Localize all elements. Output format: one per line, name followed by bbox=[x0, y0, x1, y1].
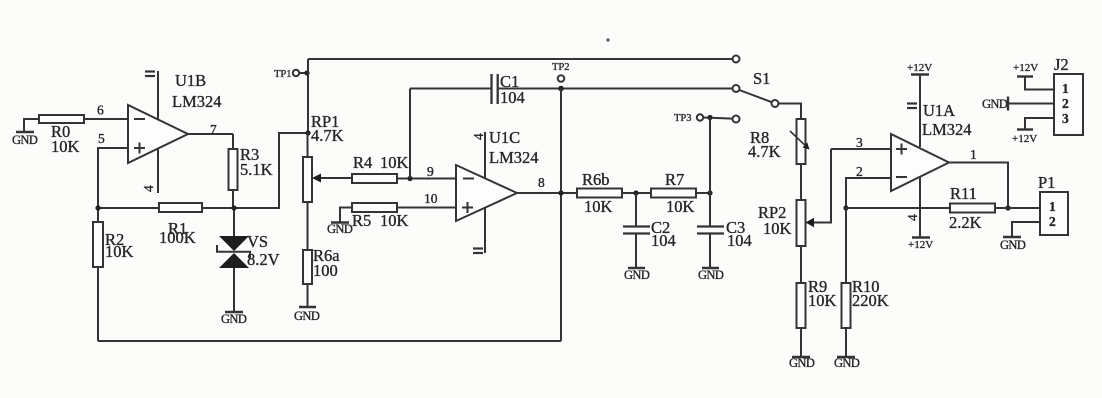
svg-text:LM324: LM324 bbox=[922, 120, 972, 139]
svg-text:10K: 10K bbox=[666, 197, 695, 216]
capacitor C3 104 bbox=[697, 193, 724, 267]
svg-text:104: 104 bbox=[727, 231, 752, 250]
ground GND below R9 bbox=[792, 356, 810, 359]
svg-text:2.2K: 2.2K bbox=[949, 213, 982, 232]
svg-text:3: 3 bbox=[856, 135, 863, 150]
ground GND below R6a bbox=[299, 306, 316, 309]
rheostat R8 4.7K bbox=[779, 104, 810, 201]
svg-text:+12V: +12V bbox=[1012, 133, 1037, 145]
svg-text:GND: GND bbox=[789, 356, 815, 370]
svg-text:104: 104 bbox=[651, 231, 676, 250]
svg-text:10K: 10K bbox=[51, 137, 80, 156]
svg-text:+12V: +12V bbox=[907, 62, 932, 74]
svg-text:GND: GND bbox=[12, 133, 38, 147]
svg-text:8: 8 bbox=[538, 175, 545, 190]
wire P1 pin2 to ground bbox=[1012, 222, 1040, 236]
resistor R4 10K bbox=[352, 89, 456, 184]
svg-text:4.7K: 4.7K bbox=[748, 142, 781, 161]
connector P1 bbox=[1040, 192, 1068, 235]
svg-text:J2: J2 bbox=[1054, 55, 1069, 74]
resistor R1 100K bbox=[159, 203, 202, 212]
svg-text:100K: 100K bbox=[159, 228, 196, 247]
svg-text:U1A: U1A bbox=[923, 101, 955, 120]
svg-text:GND: GND bbox=[624, 268, 650, 282]
svg-text:10K: 10K bbox=[105, 242, 134, 261]
svg-text:GND: GND bbox=[698, 268, 724, 282]
resistor R10 220K bbox=[842, 208, 851, 356]
ground GND at R5 bbox=[331, 208, 352, 223]
potentiometer RP2 10K bbox=[797, 149, 832, 283]
resistor R6b 10K bbox=[577, 189, 651, 198]
svg-text:2: 2 bbox=[1062, 96, 1069, 111]
svg-text:8.2V: 8.2V bbox=[247, 250, 280, 269]
svg-text:10K: 10K bbox=[380, 211, 409, 230]
capacitor C1 104 bbox=[410, 74, 733, 104]
ground GND below C2 bbox=[628, 267, 645, 270]
wire pin 3 bbox=[831, 148, 891, 150]
wire J2 pin1 +12V bbox=[1017, 77, 1054, 90]
ground GND at R0 input bbox=[16, 119, 38, 132]
svg-text:TP2: TP2 bbox=[552, 62, 570, 73]
wire pin 8 output bbox=[517, 192, 577, 194]
test point TP2 bbox=[558, 75, 565, 91]
wire feedback vertical and bottom rail bbox=[98, 89, 564, 342]
resistor R3 5.1K bbox=[229, 134, 238, 208]
svg-text:U1B: U1B bbox=[175, 71, 206, 90]
svg-text:GND: GND bbox=[982, 97, 1008, 111]
svg-text:TP3: TP3 bbox=[674, 113, 692, 124]
test point TP3 bbox=[697, 114, 733, 193]
wire J2 pin3 +12V bbox=[1017, 118, 1054, 130]
wire TP1 vertical and top wire to S1 bbox=[308, 59, 733, 133]
svg-text:104: 104 bbox=[500, 88, 525, 107]
svg-text:R7: R7 bbox=[665, 170, 684, 189]
resistor R7 10K bbox=[651, 189, 713, 198]
resistor R0 10K bbox=[39, 115, 128, 123]
svg-text:1: 1 bbox=[1062, 81, 1069, 96]
resistor R2 10K bbox=[93, 208, 103, 341]
svg-text:GND: GND bbox=[294, 309, 320, 323]
op-amp U1B bbox=[128, 71, 188, 193]
power +12V above U1A bbox=[911, 73, 929, 75]
zener diode VS 8.2V bbox=[217, 208, 250, 311]
ground GND at P1 bbox=[1003, 236, 1021, 239]
svg-text:7: 7 bbox=[210, 122, 217, 137]
potentiometer RP1 4.7K bbox=[303, 130, 352, 250]
svg-text:S1: S1 bbox=[753, 69, 770, 88]
ground GND below VS bbox=[225, 311, 243, 314]
wire pin 5 to node bbox=[98, 148, 128, 208]
svg-text:10K: 10K bbox=[380, 153, 409, 172]
svg-text:4: 4 bbox=[471, 133, 486, 140]
svg-text:1: 1 bbox=[970, 147, 977, 162]
wire main node rail y208 bbox=[98, 133, 308, 208]
svg-text:+12V: +12V bbox=[1013, 62, 1038, 74]
svg-text:P1: P1 bbox=[1038, 173, 1055, 192]
wire pin 1 output bbox=[949, 163, 1011, 211]
resistor R6a 100 bbox=[303, 250, 312, 306]
svg-text:GND: GND bbox=[327, 222, 353, 236]
svg-text:GND: GND bbox=[221, 312, 247, 326]
svg-text:6: 6 bbox=[97, 103, 104, 118]
resistor R11 2.2K bbox=[950, 204, 1040, 213]
svg-text:U1C: U1C bbox=[489, 128, 520, 147]
svg-text:LM324: LM324 bbox=[489, 148, 539, 167]
resistor R9 10K bbox=[797, 283, 806, 356]
junction dots left section bbox=[95, 205, 236, 210]
power +12V below U1A bbox=[912, 236, 930, 238]
svg-text:10K: 10K bbox=[763, 219, 792, 238]
svg-text:9: 9 bbox=[427, 164, 434, 179]
test point TP1 bbox=[293, 70, 310, 76]
svg-text:VS: VS bbox=[247, 232, 268, 251]
svg-text:10: 10 bbox=[424, 191, 438, 206]
capacitor C2 104 bbox=[623, 193, 650, 267]
op-amp U1A bbox=[891, 75, 949, 237]
svg-text:5: 5 bbox=[98, 131, 105, 146]
svg-text:R11: R11 bbox=[950, 184, 977, 203]
svg-text:4: 4 bbox=[141, 185, 156, 192]
svg-text:2: 2 bbox=[856, 164, 863, 179]
svg-text:220K: 220K bbox=[852, 291, 889, 310]
resistor R5 10K bbox=[352, 203, 456, 212]
svg-text:10K: 10K bbox=[808, 291, 837, 310]
svg-text:+12V: +12V bbox=[908, 239, 933, 251]
svg-text:GND: GND bbox=[834, 356, 860, 370]
wire pin 2 and feedback node bbox=[843, 178, 950, 211]
svg-text:GND: GND bbox=[1000, 238, 1026, 252]
svg-text:R5: R5 bbox=[352, 211, 371, 230]
op-amp U1C bbox=[456, 132, 517, 253]
svg-text:R4: R4 bbox=[353, 153, 372, 172]
svg-text:LM324: LM324 bbox=[172, 92, 222, 111]
ground GND below C3 bbox=[702, 267, 719, 270]
svg-text:R6b: R6b bbox=[582, 170, 610, 189]
svg-text:2: 2 bbox=[1049, 214, 1056, 229]
switch S1 bbox=[733, 56, 779, 123]
svg-text:10K: 10K bbox=[584, 197, 613, 216]
svg-text:5.1K: 5.1K bbox=[240, 160, 273, 179]
svg-text:4: 4 bbox=[905, 214, 920, 221]
svg-text:100: 100 bbox=[313, 261, 338, 280]
svg-text:3: 3 bbox=[1062, 111, 1069, 126]
wire J2 pin2 GND bbox=[1008, 97, 1054, 111]
svg-text:1: 1 bbox=[1049, 199, 1056, 214]
wire pin 7 bbox=[188, 133, 233, 135]
svg-text:TP1: TP1 bbox=[274, 69, 292, 80]
connector J2 bbox=[1054, 74, 1083, 135]
ground GND below R10 bbox=[837, 356, 855, 359]
svg-text:4.7K: 4.7K bbox=[311, 126, 344, 145]
